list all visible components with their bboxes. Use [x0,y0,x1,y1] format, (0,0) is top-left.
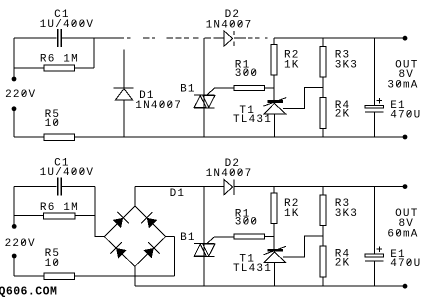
wire left vertical to 220V terminal [13,38,15,79]
resistor R5 [44,134,75,140]
resistor R2 [271,38,277,101]
svg-text:TL431: TL431 [233,114,272,126]
resistor R1 [234,85,274,90]
diode D2 [224,31,234,46]
svg-text:B1: B1 [180,84,196,96]
wire R6 row right (bottom) [75,215,95,217]
wire R6 right vertical [93,38,95,68]
svg-text:1U/400V: 1U/400V [40,167,95,179]
value label 1U/400V [40,19,95,31]
wire dashed rail section [127,37,224,39]
wire bridge bottom lead [134,266,136,286]
node OUT positive terminal [403,36,408,41]
wire bridge right lead [166,237,175,276]
svg-text:R6 1M: R6 1M [40,54,79,66]
wire R6 row left (bottom) [14,215,44,217]
resistor R3 (bottom) [320,187,326,247]
node OUT positive terminal (bottom) [403,184,408,189]
svg-text:2K: 2K [335,109,351,121]
wire top rail to dashed section [62,37,124,39]
label 220V [5,89,36,101]
resistor R6 (bottom) [44,213,76,219]
svg-text:300: 300 [235,68,258,80]
bridge rectifier diamond frame [104,206,165,266]
capacitor E1 [365,38,384,137]
wire R5 row to bridge right corner [75,275,175,277]
wire T1 reference [283,87,323,108]
svg-text:1U/400V: 1U/400V [40,19,95,31]
wire top rail right of C1 (bottom) [62,186,95,188]
node OUT negative terminal [403,135,408,140]
svg-text:10: 10 [45,118,61,130]
bridge diode bottom-left [110,242,126,258]
resistor R2 (bottom) [271,187,277,250]
svg-text:10: 10 [45,258,61,270]
value label 1N4007 of D1 [135,100,182,112]
triac B1 [194,38,234,137]
svg-text:3K3: 3K3 [335,208,358,220]
diode D1 [114,50,134,137]
wire left vertical (bottom) [13,187,15,227]
svg-text:D1: D1 [170,188,186,200]
value label 300 [235,68,258,80]
wire R6 row left [14,67,44,69]
wire R6 row right [75,67,95,69]
wire bridge left feeder [95,187,105,237]
capacitor C1 (bottom) [57,178,62,196]
wire bottom rail [75,136,406,138]
wire dashed after D2 [248,37,268,39]
value label 10 [45,118,61,130]
svg-text:B1: B1 [180,232,196,244]
node 220V terminal lower [12,106,17,111]
resistor R4 [320,98,326,137]
svg-text:1K: 1K [284,208,300,220]
wire top rail right [274,37,405,39]
value label 470U [390,109,421,121]
capacitor E1 (bottom) [365,187,384,287]
svg-text:1N4007: 1N4007 [135,100,182,112]
svg-text:300: 300 [235,217,258,229]
svg-text:R6 1M: R6 1M [40,202,79,214]
capacitor C1 [57,29,62,47]
svg-text:60mA: 60mA [387,228,418,240]
svg-text:2K: 2K [335,257,351,269]
value label 1N4007 of D2 [206,20,253,32]
wire lower left vertical [13,111,15,137]
node 220V terminal upper [12,77,17,82]
wire top rail left segment (bottom circuit) [14,186,56,188]
node OUT negative terminal (bottom) [403,284,408,289]
svg-text:Q606.COM: Q606.COM [0,286,57,299]
wire top rail mid (bottom circuit) [135,186,224,188]
wire top rail right (bottom circuit) [234,186,405,188]
wire bridge top lead [134,187,136,206]
svg-text:1N4007: 1N4007 [206,20,253,32]
wire lower left vertical (bottom) [13,258,15,276]
node 220V terminal upper (bottom) [12,224,17,229]
wire top rail left segment [14,37,56,39]
resistor R6 [44,65,75,71]
triac B1 (bottom) [194,187,234,287]
bridge diode bottom-right [143,242,159,258]
svg-text:TL431: TL431 [233,263,272,275]
wire bottom rail (bottom circuit) [135,285,405,287]
label 30mA [387,80,418,92]
resistor R5 (bottom) [44,273,75,279]
svg-text:3K3: 3K3 [335,60,358,72]
label 60mA (bottom) [387,228,418,240]
value label 470U (bottom) [390,258,421,270]
svg-text:470U: 470U [390,109,421,121]
value label 300 (bottom) [235,217,258,229]
wire T1 reference (bottom) [283,236,323,257]
node 220V terminal lower (bottom) [12,254,17,259]
resistor R3 [320,38,326,97]
bridge diode top-right [141,212,157,228]
value label 10 (bottom) [45,258,61,270]
svg-text:220V: 220V [5,238,36,250]
wire after D2 [234,37,246,39]
svg-text:1N4007: 1N4007 [206,168,253,180]
value label 1U/400V (bottom) [40,167,95,179]
svg-text:30mA: 30mA [387,80,418,92]
diode D2 (bottom) [224,180,234,195]
shunt regulator T1 TL431 (bottom) [263,246,286,286]
wire bottom rail left [14,136,44,138]
value label 1N4007 of D2 (bottom) [206,168,253,180]
svg-text:470U: 470U [390,258,421,270]
svg-text:220V: 220V [5,89,36,101]
resistor R1 (bottom) [234,234,274,239]
wire bottom row left (bottom) [14,275,44,277]
bridge diode top-left [113,212,129,228]
svg-text:1K: 1K [284,60,300,72]
resistor R4 (bottom) [320,246,326,286]
shunt regulator T1 TL431 [263,98,286,137]
label 220V (bottom) [5,238,36,250]
